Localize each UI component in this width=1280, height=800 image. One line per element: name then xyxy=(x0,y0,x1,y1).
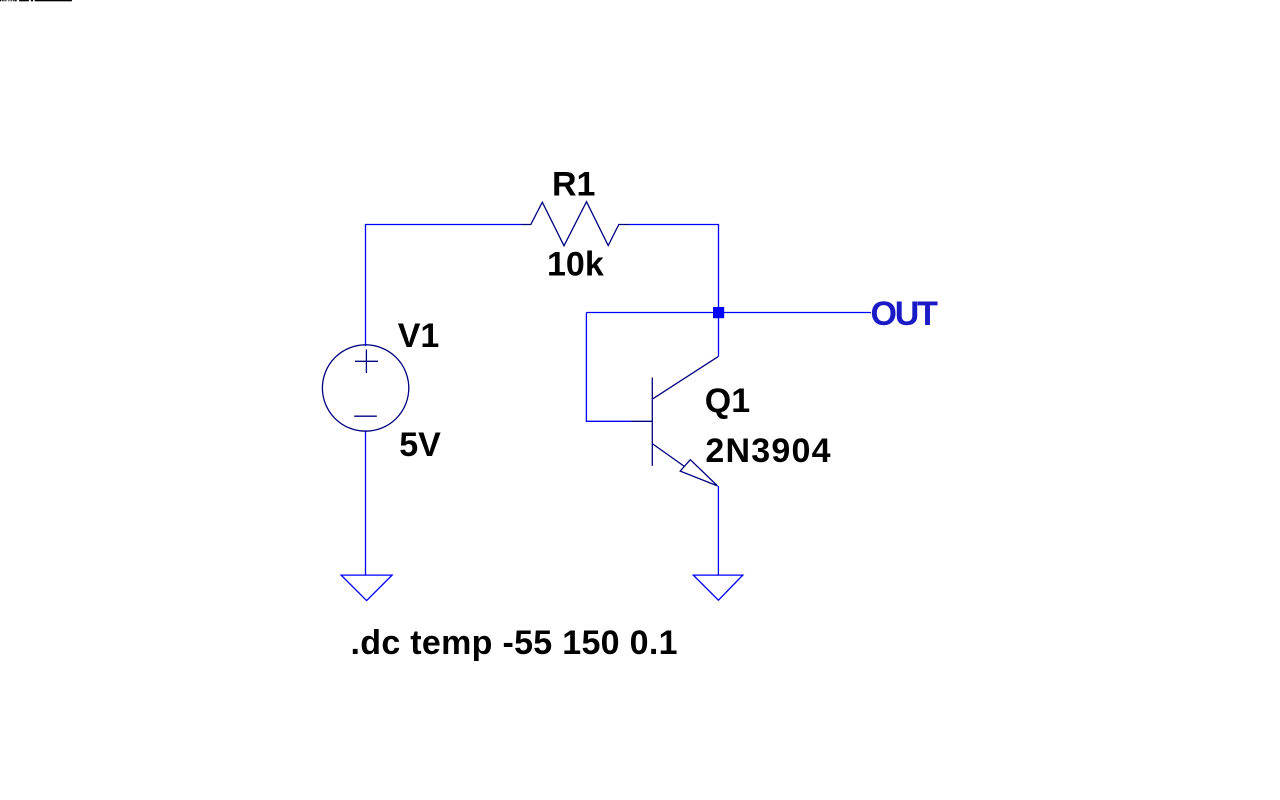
svg-text:2N3904: 2N3904 xyxy=(705,432,831,470)
svg-text:V1: V1 xyxy=(398,317,440,355)
svg-text:.dc temp -55 150 0.1: .dc temp -55 150 0.1 xyxy=(351,624,678,662)
svg-text:OUT: OUT xyxy=(871,295,939,333)
svg-text:R1: R1 xyxy=(552,166,595,204)
svg-text:10k: 10k xyxy=(547,245,604,283)
svg-text:5V: 5V xyxy=(399,426,441,464)
svg-text:Q1: Q1 xyxy=(705,382,750,420)
